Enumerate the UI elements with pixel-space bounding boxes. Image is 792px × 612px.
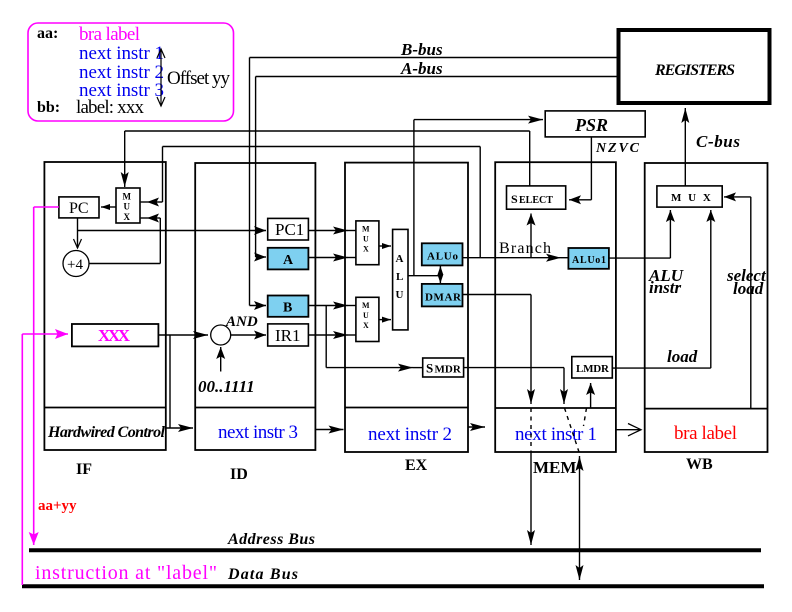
svg-text:ALUo1: ALUo1 — [572, 255, 606, 266]
svg-text:M: M — [362, 225, 370, 234]
svg-text:REGISTERS: REGISTERS — [654, 62, 735, 79]
svg-text:aa:: aa: — [37, 25, 58, 42]
svg-text:label: xxx: label: xxx — [76, 97, 145, 118]
svg-text:X: X — [124, 212, 131, 222]
svg-text:U: U — [363, 311, 369, 320]
svg-text:next instr 3: next instr 3 — [218, 422, 298, 443]
svg-text:AND: AND — [225, 314, 258, 330]
svg-text:PSR: PSR — [574, 115, 608, 135]
svg-text:A-bus: A-bus — [400, 59, 443, 78]
svg-text:A: A — [396, 253, 404, 265]
svg-text:C-bus: C-bus — [696, 132, 740, 151]
svg-text:U: U — [363, 235, 369, 244]
svg-text:instruction at "label": instruction at "label" — [35, 562, 217, 584]
svg-text:MEM: MEM — [533, 458, 576, 477]
svg-text:load: load — [733, 279, 764, 298]
svg-text:bb:: bb: — [37, 99, 60, 116]
svg-text:S: S — [511, 192, 518, 206]
svg-text:next instr 1: next instr 1 — [79, 43, 164, 64]
svg-text:L: L — [396, 271, 403, 283]
svg-text:aa+yy: aa+yy — [38, 498, 77, 514]
svg-text:00..1111: 00..1111 — [198, 377, 255, 396]
svg-text:instr: instr — [649, 278, 682, 297]
svg-text:IR1: IR1 — [275, 326, 301, 345]
svg-text:+4: +4 — [67, 257, 83, 273]
svg-text:ALUo: ALUo — [427, 251, 459, 263]
svg-text:load: load — [667, 347, 698, 366]
svg-text:Hardwired Control: Hardwired Control — [47, 424, 166, 441]
svg-text:LMDR: LMDR — [576, 363, 610, 375]
svg-text:bra label: bra label — [79, 24, 140, 45]
svg-text:X: X — [363, 321, 369, 330]
svg-text:M: M — [362, 301, 370, 310]
svg-text:U: U — [124, 202, 131, 212]
svg-text:B: B — [283, 301, 292, 316]
svg-text:XXX: XXX — [98, 326, 131, 345]
svg-text:PC: PC — [69, 200, 89, 217]
svg-text:ID: ID — [230, 466, 248, 483]
svg-text:A: A — [283, 253, 294, 268]
svg-text:IF: IF — [76, 461, 92, 478]
svg-text:WB: WB — [686, 456, 713, 473]
svg-text:B-bus: B-bus — [400, 40, 443, 59]
svg-text:next instr 1: next instr 1 — [515, 424, 597, 445]
svg-text:EX: EX — [405, 457, 428, 474]
svg-text:bra label: bra label — [674, 423, 737, 444]
svg-text:Data Bus: Data Bus — [227, 566, 298, 583]
svg-text:ELECT: ELECT — [519, 195, 553, 206]
svg-text:Branch: Branch — [499, 240, 551, 257]
svg-text:next instr 2: next instr 2 — [368, 424, 452, 445]
svg-text:S: S — [426, 361, 433, 376]
svg-text:M: M — [123, 192, 132, 202]
svg-text:X: X — [363, 245, 369, 254]
svg-text:Offset yy: Offset yy — [167, 68, 231, 89]
svg-text:M U X: M U X — [671, 192, 713, 204]
svg-text:DMAR: DMAR — [425, 292, 462, 304]
svg-text:PC1: PC1 — [275, 220, 304, 239]
svg-text:U: U — [396, 289, 404, 301]
svg-text:Address Bus: Address Bus — [227, 531, 315, 548]
svg-text:MDR: MDR — [435, 364, 462, 376]
